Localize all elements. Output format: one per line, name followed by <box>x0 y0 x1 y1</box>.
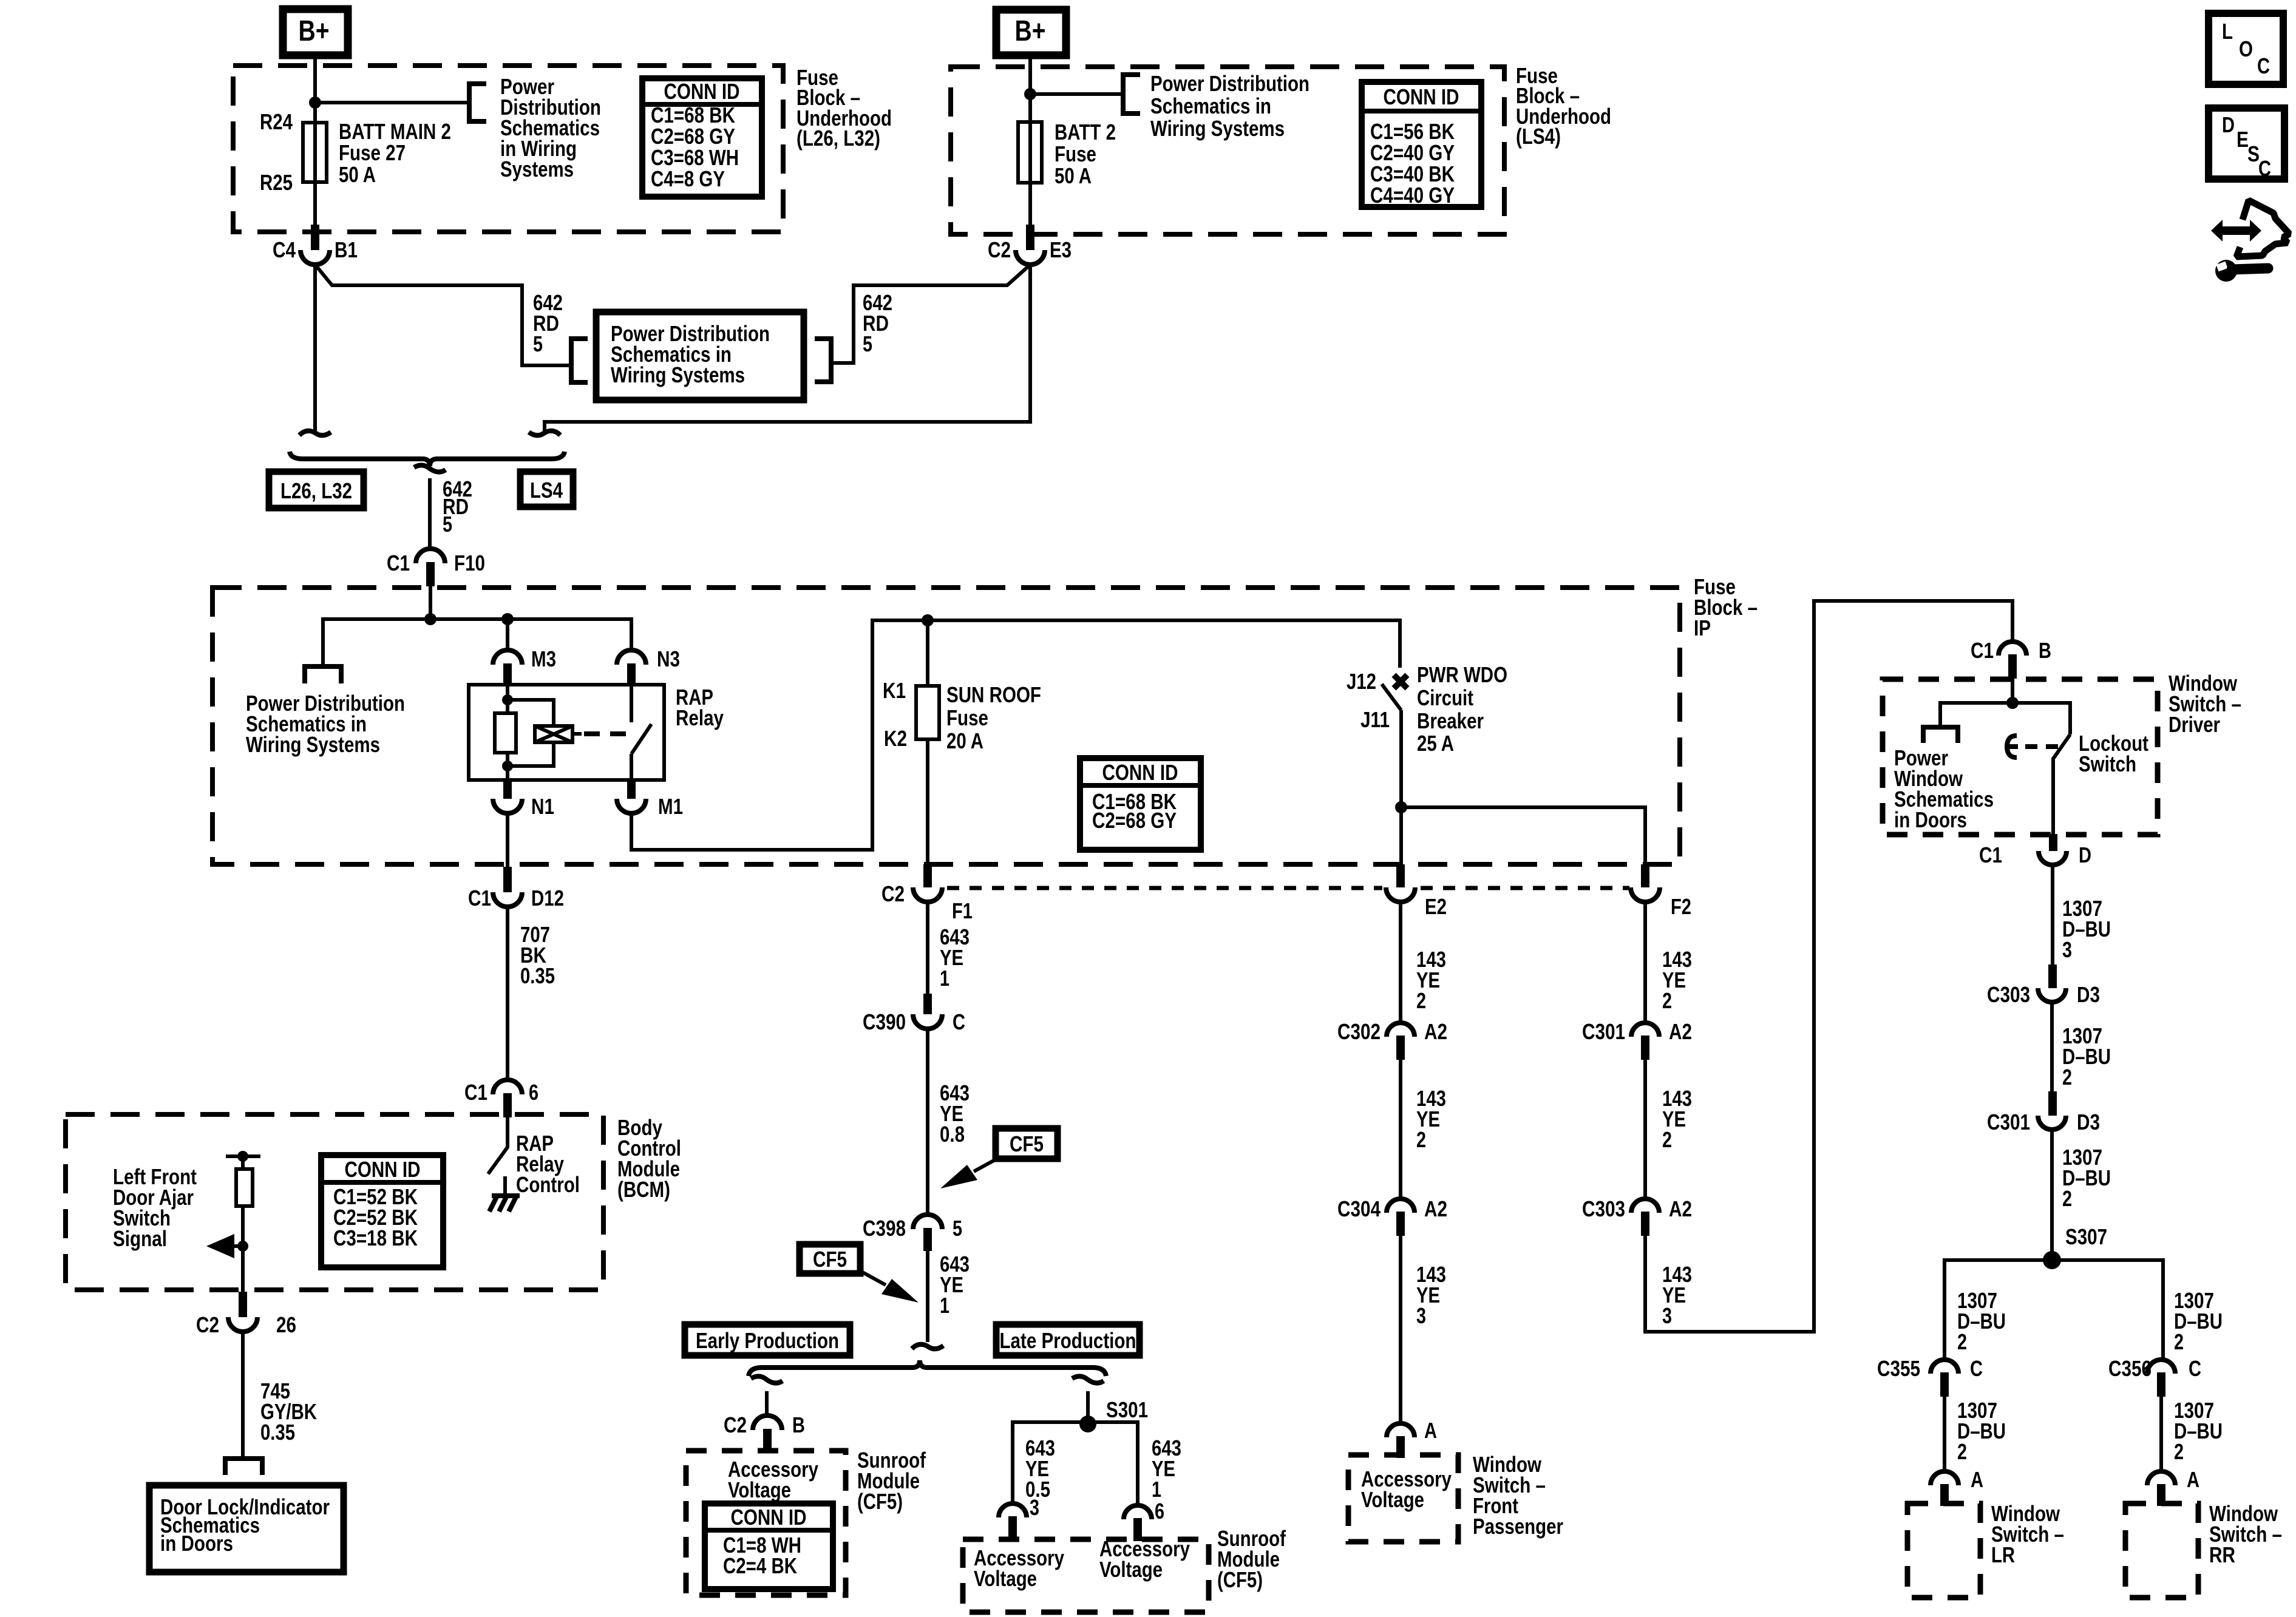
fuse BATT MAIN 2 Fuse 27 50A <box>303 123 327 182</box>
in-line connector dotted row <box>947 886 1382 890</box>
svg-text:A2: A2 <box>1669 1019 1692 1044</box>
connector 3 arc <box>999 1503 1027 1517</box>
svg-text:N1: N1 <box>531 794 554 819</box>
svg-text:2: 2 <box>2062 1186 2072 1211</box>
connector A arc <box>1387 1423 1415 1437</box>
svg-text:C: C <box>2189 1356 2201 1381</box>
junction node <box>1024 88 1036 100</box>
svg-text:3: 3 <box>1416 1303 1426 1328</box>
svg-text:Late Production: Late Production <box>1000 1328 1136 1353</box>
junction node <box>2006 697 2019 709</box>
off-page hook (early branch) <box>751 1376 783 1383</box>
relay resistor <box>495 713 516 753</box>
svg-text:C356: C356 <box>2108 1356 2152 1381</box>
SECTION: top-right fuse block underhood <box>951 10 1611 265</box>
svg-text:Control: Control <box>516 1172 580 1197</box>
svg-text:SUN ROOF: SUN ROOF <box>946 682 1041 707</box>
svg-text:6: 6 <box>529 1080 538 1105</box>
wire from B+ down <box>1028 55 1032 227</box>
connector C1/6 arc <box>493 1080 522 1094</box>
wire into IP fuse block <box>429 586 432 619</box>
connector C303/D3 arc <box>2038 988 2066 1002</box>
connector C2/B terminal bar <box>763 1429 772 1452</box>
relay mechanical link (dashed) <box>584 731 628 736</box>
svg-text:(CF5): (CF5) <box>857 1489 903 1514</box>
svg-text:Wiring Systems: Wiring Systems <box>1150 116 1285 141</box>
svg-text:PWR WDO: PWR WDO <box>1417 662 1507 687</box>
svg-text:0.35: 0.35 <box>260 1420 295 1445</box>
connector C356/C terminal bar <box>2157 1372 2165 1397</box>
svg-text:2: 2 <box>2174 1439 2184 1464</box>
junction node coil bottom <box>502 761 513 771</box>
svg-text:C304: C304 <box>1337 1196 1381 1221</box>
RAP relay control fixed contact wire <box>503 1176 507 1196</box>
connector C390/C terminal bar <box>923 994 932 1014</box>
wire F2 to C301 <box>1643 902 1647 1022</box>
svg-text:Power Distribution: Power Distribution <box>1150 71 1309 96</box>
lockout switch arm <box>2053 734 2070 834</box>
power terminal B+ (right) <box>996 10 1066 55</box>
svg-text:B: B <box>2039 638 2051 663</box>
CONN ID table (left underhood) <box>642 78 762 197</box>
connector C304/A2 terminal bar <box>1396 1212 1405 1236</box>
svg-text:C4: C4 <box>273 237 296 262</box>
svg-text:C302: C302 <box>1337 1019 1381 1044</box>
wire S301 right branch <box>1088 1422 1138 1505</box>
svg-text:2: 2 <box>1957 1329 1967 1354</box>
accessory voltage dashed box (front passenger) <box>1348 1455 1458 1542</box>
svg-text:Voltage: Voltage <box>728 1477 791 1502</box>
off-page hook (wire 642 start) <box>414 465 446 472</box>
svg-text:Early Production: Early Production <box>696 1328 839 1353</box>
svg-text:1: 1 <box>940 966 949 991</box>
wire C390 to C398 <box>926 1029 929 1215</box>
callout box CF5 (lower) <box>800 1244 860 1273</box>
callout arrow CF5 (lower) <box>860 1271 886 1285</box>
SECTION: fuse block IP <box>212 574 1758 867</box>
off-page fork (power distribution) <box>305 666 341 683</box>
LOC icon box <box>2209 13 2283 84</box>
wire C2/F1 to C390 <box>926 902 929 994</box>
wire to power distribution stub <box>1030 92 1123 96</box>
svg-text:RR: RR <box>2209 1542 2235 1567</box>
wire C304 to A <box>1399 1236 1402 1423</box>
svg-text:(L26, L32): (L26, L32) <box>796 126 880 151</box>
svg-text:IP: IP <box>1694 615 1711 640</box>
wire N1 down to C1/D12 <box>506 813 509 867</box>
fuse BATT 2 Fuse 50A <box>1018 122 1042 183</box>
connector N1 arc <box>493 799 522 813</box>
connector 6 arc <box>1124 1505 1152 1519</box>
connector C1/D arc <box>2039 851 2067 865</box>
SECTION: passenger chain <box>1337 902 1563 1542</box>
connector C302/A2 arc <box>1387 1023 1415 1037</box>
junction node coil top <box>502 694 513 705</box>
junction node at C1/F10 feed <box>424 613 436 625</box>
svg-text:S: S <box>2247 141 2260 166</box>
connector C302/A2 terminal bar <box>1396 1036 1405 1060</box>
SECTION: driver chain <box>1582 601 2282 1598</box>
svg-text:Fuse: Fuse <box>1055 141 1096 166</box>
svg-text:C303: C303 <box>1987 982 2030 1007</box>
svg-text:S307: S307 <box>2065 1224 2107 1249</box>
svg-text:A: A <box>2187 1467 2199 1492</box>
svg-text:Wiring Systems: Wiring Systems <box>246 732 380 757</box>
wire C2/E3 straight down and left to splice hook <box>545 265 1030 433</box>
wire M3 branch <box>506 619 509 650</box>
svg-text:N3: N3 <box>657 646 680 671</box>
svg-text:1: 1 <box>1152 1477 1161 1502</box>
CONN ID table (right underhood) <box>1362 82 1481 208</box>
svg-text:0.35: 0.35 <box>520 963 555 988</box>
relay switch lower wire <box>630 754 633 780</box>
svg-text:2: 2 <box>1416 988 1426 1013</box>
svg-text:5: 5 <box>863 331 872 356</box>
wire C301 to C303 <box>1643 1060 1647 1198</box>
connector C2/26 terminal bar <box>239 1292 247 1317</box>
connector C1/6 terminal bar <box>503 1093 512 1117</box>
wire to power window fork <box>1940 703 2012 727</box>
junction node <box>237 1151 248 1162</box>
connector A arc (RR) <box>2147 1471 2175 1485</box>
wire resistor to node <box>241 1206 245 1247</box>
DESC icon box <box>2209 108 2284 181</box>
svg-text:E2: E2 <box>1425 894 1447 919</box>
connector C2/B arc <box>753 1415 782 1430</box>
svg-text:K2: K2 <box>884 726 907 751</box>
svg-text:B1: B1 <box>335 237 358 262</box>
window switch driver dashed box <box>1883 679 2158 835</box>
svg-text:C4=40 GY: C4=40 GY <box>1370 183 1455 208</box>
connector N1 terminal bar <box>503 780 512 799</box>
svg-text:Fuse: Fuse <box>946 705 988 730</box>
junction node breaker out <box>1395 801 1407 813</box>
relay coil (box with X) <box>535 726 572 742</box>
CONN ID table (sunroof early) <box>705 1503 833 1589</box>
SECTION: top-left fuse block underhood <box>233 9 892 265</box>
box: Power Distribution Schematics in Wiring Systems <box>596 312 804 400</box>
connector C4/B1 arc <box>301 250 330 265</box>
connector C2/E3 terminal bar <box>1026 225 1034 250</box>
svg-text:2: 2 <box>1662 988 1672 1013</box>
relay switch fixed contact wire <box>630 685 633 722</box>
svg-text:B+: B+ <box>299 15 330 47</box>
wire breaker down <box>1399 710 1403 867</box>
svg-text:2: 2 <box>1957 1439 1967 1464</box>
svg-text:C2=68 GY: C2=68 GY <box>1092 808 1177 833</box>
off-page fork (power window schematics) <box>1923 727 1958 743</box>
bracket into PD box (left side) <box>571 339 588 382</box>
connector C4/B1 terminal bar <box>311 225 319 250</box>
svg-text:Wiring Systems: Wiring Systems <box>611 362 745 387</box>
svg-text:M1: M1 <box>658 794 683 819</box>
connector F2 terminal bar <box>1641 864 1649 887</box>
svg-text:F2: F2 <box>1671 894 1691 919</box>
removal/installation icon: double arrow <box>2211 220 2261 242</box>
svg-text:J12: J12 <box>1347 669 1376 694</box>
svg-text:D: D <box>2079 842 2091 867</box>
lockout actuator <box>2007 736 2018 758</box>
svg-text:2: 2 <box>1662 1127 1672 1152</box>
svg-text:Driver: Driver <box>2169 712 2220 737</box>
connector C398/5 arc <box>913 1215 942 1229</box>
svg-text:C2: C2 <box>881 881 905 906</box>
svg-text:R25: R25 <box>260 170 293 195</box>
connector C1/B terminal bar <box>2008 654 2017 679</box>
connector A arc (LR) <box>1931 1471 1958 1485</box>
svg-text:C: C <box>1970 1356 1983 1381</box>
svg-text:L26, L32: L26, L32 <box>280 478 352 503</box>
svg-text:E3: E3 <box>1050 237 1072 262</box>
svg-text:5: 5 <box>953 1216 962 1241</box>
callout box CF5 (upper) <box>996 1128 1058 1159</box>
svg-text:D: D <box>2222 112 2235 137</box>
svg-text:3: 3 <box>1030 1495 1039 1520</box>
door ajar input terminal bar <box>226 1154 260 1158</box>
svg-text:5: 5 <box>443 512 452 537</box>
box L26, L32 <box>269 472 364 508</box>
off-page hook (right wire end) <box>529 431 560 435</box>
svg-text:CONN ID: CONN ID <box>1384 84 1459 109</box>
svg-text:(BCM): (BCM) <box>617 1177 670 1202</box>
junction node at M3 branch <box>501 613 514 625</box>
svg-text:J11: J11 <box>1360 707 1390 732</box>
svg-text:A2: A2 <box>1424 1019 1447 1044</box>
connector C356/C arc <box>2147 1360 2175 1374</box>
svg-text:Voltage: Voltage <box>1361 1487 1424 1512</box>
svg-text:CF5: CF5 <box>813 1247 847 1272</box>
wire 745 down to door lock fork <box>241 1332 245 1459</box>
connector M3 terminal bar <box>503 663 512 685</box>
junction node sunroof fuse <box>922 614 934 626</box>
svg-text:Breaker: Breaker <box>1417 708 1484 733</box>
connector F2 arc <box>1631 887 1660 902</box>
fuse block - IP dashed box <box>212 588 1680 864</box>
svg-text:Voltage: Voltage <box>974 1566 1037 1591</box>
svg-text:C: C <box>953 1009 965 1034</box>
connector C301/D3 terminal bar <box>2048 1091 2057 1116</box>
connector E2 arc <box>1386 887 1415 902</box>
connector C1/F10 arc <box>416 549 445 563</box>
svg-text:A2: A2 <box>1669 1196 1692 1221</box>
svg-text:C1: C1 <box>387 551 410 575</box>
svg-text:R24: R24 <box>260 109 293 134</box>
circuit breaker arm J12-J11 <box>1382 684 1401 710</box>
power terminal B+ (left) <box>283 9 348 55</box>
connector N3 arc <box>617 650 646 665</box>
arrow link wire <box>233 1244 243 1248</box>
wire C398 down to split <box>926 1251 929 1342</box>
sunroof module (early) dashed box <box>686 1451 846 1595</box>
wire E2 to C302 <box>1399 902 1402 1022</box>
CONN ID table (IP) <box>1080 758 1201 850</box>
wire C356 to A <box>2159 1397 2163 1471</box>
wire C303 down, over and up to driver switch <box>1645 601 2012 1332</box>
wire 707 down to C1/6 <box>506 907 509 1080</box>
wire from B+ down <box>313 55 317 227</box>
svg-text:A: A <box>1424 1418 1437 1443</box>
svg-text:3: 3 <box>2062 937 2072 962</box>
bracket out of PD box (right side) <box>815 339 831 382</box>
svg-text:Circuit: Circuit <box>1417 685 1473 710</box>
connector C2/E3 arc <box>1016 250 1045 265</box>
relay switch arm <box>631 724 651 754</box>
wire to resistor <box>241 1156 245 1169</box>
wire diagonal from C4/B1 to 642 RD run <box>315 265 571 365</box>
svg-text:0.8: 0.8 <box>940 1122 965 1147</box>
svg-text:B+: B+ <box>1015 15 1046 47</box>
connector C303/A2 arc <box>1631 1199 1659 1213</box>
wire C355 to A <box>1943 1397 1946 1471</box>
box: Door Lock/Indicator Schematics in Doors <box>149 1485 344 1572</box>
connector C398/5 terminal bar <box>923 1228 932 1251</box>
svg-text:A: A <box>1971 1467 1983 1492</box>
connector C2/F1 arc <box>913 887 942 902</box>
svg-text:in Doors: in Doors <box>160 1531 233 1556</box>
svg-text:Voltage: Voltage <box>1099 1557 1163 1582</box>
svg-text:C1: C1 <box>1971 638 1994 663</box>
connector 6 terminal bar <box>1133 1518 1142 1541</box>
connector A terminal bar (RR) <box>2157 1484 2165 1506</box>
bus wire inside IP block <box>323 619 631 666</box>
svg-text:S301: S301 <box>1106 1397 1148 1422</box>
connector C2/26 arc <box>228 1317 257 1332</box>
wire fuse down to C2/F1 <box>926 739 929 867</box>
off-page bracket (power distribution schematics) <box>1123 75 1140 114</box>
svg-text:C4=8 GY: C4=8 GY <box>651 166 725 191</box>
svg-text:D12: D12 <box>531 886 564 910</box>
connector C1/D terminal bar <box>2049 834 2057 851</box>
wire node down to C2/26 <box>241 1246 245 1292</box>
signal arrow <box>206 1234 234 1258</box>
connector A terminal bar <box>1396 1436 1405 1458</box>
CONN ID table (BCM) <box>321 1155 443 1267</box>
svg-text:C: C <box>2257 53 2270 78</box>
wire C4/B1 down to splice hook <box>313 265 317 433</box>
circuit breaker contact mark x <box>1394 675 1407 688</box>
svg-text:K1: K1 <box>883 678 906 703</box>
wire C302 to C304 <box>1399 1060 1402 1198</box>
RAP relay control switch arm <box>488 1117 508 1174</box>
svg-text:2: 2 <box>1416 1127 1426 1152</box>
svg-text:Signal: Signal <box>113 1226 167 1251</box>
connector C355/C terminal bar <box>1940 1372 1949 1397</box>
connector C390/C arc <box>913 1014 942 1029</box>
svg-text:20 A: 20 A <box>946 728 983 753</box>
svg-text:M3: M3 <box>531 646 556 671</box>
svg-text:CF5: CF5 <box>1010 1131 1044 1156</box>
svg-text:50 A: 50 A <box>1055 163 1092 188</box>
splice S307 <box>2043 1251 2061 1269</box>
wire to power distribution stub <box>315 101 469 104</box>
svg-text:C2: C2 <box>724 1412 747 1437</box>
svg-text:Switch: Switch <box>2079 751 2136 776</box>
SECTION: sunroof chain <box>685 902 1286 1612</box>
svg-text:F1: F1 <box>952 898 973 923</box>
wire S301 left branch <box>1013 1422 1088 1503</box>
svg-text:(CF5): (CF5) <box>1217 1567 1263 1592</box>
svg-text:C2: C2 <box>988 237 1011 262</box>
svg-text:2: 2 <box>2062 1065 2072 1090</box>
svg-text:C303: C303 <box>1582 1196 1625 1221</box>
connector C301/A2 arc <box>1631 1023 1659 1037</box>
svg-text:C1: C1 <box>464 1080 487 1105</box>
connector C1/F10 terminal bar <box>426 562 435 586</box>
lockout actuator link (dashed) <box>2025 744 2059 749</box>
SECTION: middle power distribution <box>269 265 1030 619</box>
svg-text:5: 5 <box>533 331 543 356</box>
box LS4 <box>520 472 573 507</box>
svg-text:1: 1 <box>940 1293 949 1318</box>
box Late Production <box>996 1324 1140 1355</box>
svg-text:26: 26 <box>276 1312 296 1337</box>
SECTION: connector row <box>881 864 1691 923</box>
off-page hook (left wire end) <box>299 431 331 435</box>
connector N3 terminal bar <box>627 663 636 685</box>
chassis ground <box>489 1196 520 1212</box>
svg-text:F10: F10 <box>454 551 485 575</box>
svg-text:Relay: Relay <box>676 705 724 730</box>
connector C2/F1 terminal bar <box>923 864 932 887</box>
body control module dashed box <box>66 1114 603 1290</box>
off-page bracket (power distribution schematics) <box>469 84 486 121</box>
fuse block - underhood (LS4) dashed box <box>951 67 1504 234</box>
svg-text:O: O <box>2239 36 2253 61</box>
svg-text:D3: D3 <box>2077 982 2100 1007</box>
fuse block - underhood (L26,L32) dashed box <box>233 66 783 232</box>
connector A terminal bar (LR) <box>1940 1484 1949 1506</box>
brace under split <box>749 1360 1106 1376</box>
svg-text:C355: C355 <box>1877 1356 1920 1381</box>
svg-text:C1: C1 <box>1979 842 2002 867</box>
svg-text:C3=18 BK: C3=18 BK <box>333 1225 418 1250</box>
junction node <box>309 97 321 109</box>
svg-text:LS4: LS4 <box>530 478 563 503</box>
connector C303/D3 terminal bar <box>2048 964 2057 988</box>
svg-text:C2=4 BK: C2=4 BK <box>723 1553 797 1578</box>
SECTION: BCM <box>66 867 681 1572</box>
wire early branch <box>765 1391 769 1416</box>
wire late branch to S301 <box>1086 1391 1090 1424</box>
window switch RR dashed box <box>2125 1503 2198 1598</box>
connector C304/A2 arc <box>1387 1199 1415 1213</box>
relay coil leg wire <box>506 685 509 780</box>
wire to F2 drop <box>1401 807 1645 867</box>
svg-text:Systems: Systems <box>500 157 574 181</box>
callout arrow CF5 (upper) <box>974 1158 999 1171</box>
svg-text:CONN ID: CONN ID <box>1102 760 1178 785</box>
svg-text:C390: C390 <box>863 1009 906 1034</box>
svg-text:BATT 2: BATT 2 <box>1055 120 1116 144</box>
connector M3 arc <box>493 650 522 665</box>
off-page hook (wire end at split) <box>912 1344 943 1349</box>
connector E2 terminal bar <box>1396 864 1405 887</box>
splice S301 <box>1079 1415 1096 1432</box>
wire M1 down and over to sunroof feed <box>631 620 1400 850</box>
wire C301 to S307 <box>2050 1130 2054 1260</box>
svg-text:C1: C1 <box>468 886 491 910</box>
svg-text:C2: C2 <box>196 1312 219 1337</box>
connector M1 arc <box>617 799 646 813</box>
svg-text:Schematics in: Schematics in <box>1150 93 1271 118</box>
wire to lockout switch <box>2012 703 2070 734</box>
svg-text:in Doors: in Doors <box>1894 807 1967 832</box>
svg-text:CONN ID: CONN ID <box>345 1157 421 1182</box>
off-page hook (late branch) <box>1072 1376 1104 1383</box>
svg-text:Passenger: Passenger <box>1473 1514 1563 1539</box>
svg-text:L: L <box>2222 19 2233 44</box>
connector C301/A2 terminal bar <box>1641 1036 1649 1060</box>
